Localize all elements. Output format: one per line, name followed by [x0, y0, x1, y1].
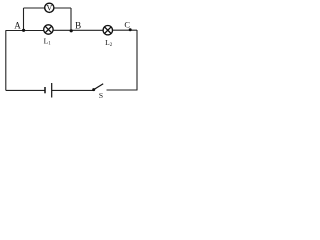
svg-text:B: B: [75, 21, 81, 31]
svg-text:A: A: [14, 21, 21, 31]
svg-text:V: V: [47, 4, 53, 13]
svg-text:L2: L2: [105, 38, 113, 48]
svg-text:L1: L1: [44, 36, 52, 46]
svg-text:S: S: [99, 91, 103, 100]
svg-text:C: C: [124, 19, 130, 29]
